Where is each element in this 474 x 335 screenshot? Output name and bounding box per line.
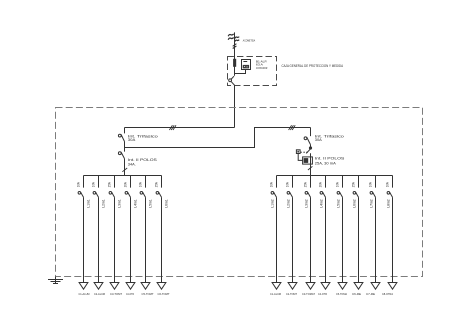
svg-text:CAJA GENERAL DE PROTECCION Y M: CAJA GENERAL DE PROTECCION Y MEDIDA xyxy=(282,64,344,68)
meter kWh xyxy=(242,60,251,70)
circuit R5: breaker 16A + feeder to load arrow xyxy=(336,176,347,290)
wire: Q1 to tee xyxy=(124,142,126,152)
svg-text:CONTADOR: CONTADOR xyxy=(256,66,268,70)
svg-text:16A: 16A xyxy=(369,181,373,187)
label Q2 xyxy=(128,158,158,167)
svg-text:25A: 25A xyxy=(155,181,159,187)
circuit R3: breaker 25A + feeder to load arrow xyxy=(304,176,315,290)
circuit L5: breaker 16A + feeder to load arrow xyxy=(139,176,153,290)
svg-text:30A: 30A xyxy=(315,138,323,142)
label Q1 xyxy=(128,134,158,142)
svg-text:C6-TOMT: C6-TOMT xyxy=(158,292,170,296)
svg-text:C1-ALUM: C1-ALUM xyxy=(79,292,91,296)
svg-text:C4-OTR: C4-OTR xyxy=(126,292,134,296)
svg-text:C4-OTR: C4-OTR xyxy=(318,292,327,296)
RCD D1 differential 25A 30mA xyxy=(296,145,312,164)
svg-text:C3-TOMT: C3-TOMT xyxy=(110,292,122,296)
circuit L6: breaker 25A + feeder to load arrow xyxy=(155,176,169,290)
svg-text:C1-ALUM: C1-ALUM xyxy=(270,292,282,296)
svg-text:C8-OTRA: C8-OTRA xyxy=(382,292,393,296)
neutral mark on left bus feed xyxy=(122,168,127,172)
svg-text:10A: 10A xyxy=(77,181,81,187)
svg-text:L7m2: L7m2 xyxy=(369,199,373,208)
svg-text:16A: 16A xyxy=(286,181,290,187)
wire: Q2 to left bus xyxy=(124,159,126,176)
svg-text:L1m1: L1m1 xyxy=(86,199,90,208)
circuit L2: breaker 16A + feeder to load arrow xyxy=(92,176,106,290)
svg-text:L8m2: L8m2 xyxy=(386,199,390,208)
wire: meter tap to main xyxy=(235,70,246,74)
labels: right circuit names xyxy=(270,292,393,296)
neutral mark on right bus feed xyxy=(308,166,313,170)
label Q3 xyxy=(315,134,344,142)
svg-text:C6-RE: C6-RE xyxy=(352,292,361,296)
svg-text:25A: 25A xyxy=(108,181,112,187)
svg-text:L3m2: L3m2 xyxy=(304,199,308,208)
svg-text:C5-TOMT: C5-TOMT xyxy=(142,292,154,296)
svg-text:34A.: 34A. xyxy=(128,163,136,167)
switch Q1 Int. Trifasico 30A xyxy=(118,134,124,141)
svg-text:30A: 30A xyxy=(128,138,137,142)
svg-text:ACOMETIDA: ACOMETIDA xyxy=(243,39,256,43)
svg-text:C3-TOMAT: C3-TOMAT xyxy=(302,292,315,296)
svg-text:L4m1: L4m1 xyxy=(133,199,137,208)
enclosure dwelling boundary dashed box xyxy=(56,108,423,277)
labels: left circuit names xyxy=(79,292,170,296)
svg-text:C2-TOMT: C2-TOMT xyxy=(286,292,297,296)
svg-text:C2-ALUM: C2-ALUM xyxy=(94,292,106,296)
phase marks (2) on service wire xyxy=(233,44,237,49)
svg-text:L3m1: L3m1 xyxy=(117,199,121,208)
switch Q3 Int. Trifasico 30A (right) xyxy=(304,137,310,145)
switch Q0 (CGP disconnect) xyxy=(229,76,235,85)
circuit L1: breaker 10A + feeder to load arrow xyxy=(77,176,91,290)
svg-text:L5m2: L5m2 xyxy=(336,199,340,208)
svg-text:Int. II POLOS: Int. II POLOS xyxy=(128,158,158,162)
phase marks (3) on left feeder xyxy=(169,125,176,130)
wire: service drop into CGP xyxy=(234,32,236,75)
svg-text:L2m1: L2m1 xyxy=(101,199,105,208)
wire: tee to right branch (Z run) xyxy=(125,128,311,148)
wire: junction to left branch xyxy=(125,127,235,129)
svg-text:20A: 20A xyxy=(319,181,323,187)
wire: right feeder down xyxy=(310,128,312,137)
switch Q2 125V II POLOS 34A xyxy=(118,152,124,159)
circuit R4: breaker 20A + feeder to load arrow xyxy=(319,176,330,290)
wire: RCD to right bus xyxy=(310,153,312,175)
svg-text:L2m2: L2m2 xyxy=(286,199,290,208)
svg-text:16A: 16A xyxy=(139,181,143,187)
circuit R8: breaker 10A + feeder to load arrow xyxy=(386,176,397,290)
label D1 xyxy=(315,156,346,165)
bus: left distribution bus xyxy=(84,175,162,177)
svg-text:16A: 16A xyxy=(336,181,340,187)
svg-text:10A: 10A xyxy=(386,181,390,187)
phase marks (3) on right feeder xyxy=(289,125,296,130)
svg-text:16A: 16A xyxy=(92,181,96,187)
circuit R7: breaker 16A + feeder to load arrow xyxy=(369,176,380,290)
svg-text:L1m2: L1m2 xyxy=(270,199,274,208)
wire: CGP to junction xyxy=(234,85,236,128)
node ACOMETIDA: supply network symbol xyxy=(228,34,239,42)
ground (earth electrode) xyxy=(48,277,63,285)
svg-text:C5-TOMA: C5-TOMA xyxy=(336,292,347,296)
bus: right distribution bus xyxy=(277,175,393,177)
circuit L3: breaker 25A + feeder to load arrow xyxy=(108,176,122,290)
circuit L4: breaker 20A + feeder to load arrow xyxy=(124,176,138,290)
svg-text:20A: 20A xyxy=(124,181,128,187)
circuit R6: breaker 25A + feeder to load arrow xyxy=(352,176,363,290)
svg-text:C7-RE: C7-RE xyxy=(366,292,375,296)
svg-text:25A, 30 mA: 25A, 30 mA xyxy=(315,162,337,166)
fuse F1 xyxy=(233,59,236,67)
svg-text:25A: 25A xyxy=(352,181,356,187)
svg-text:L6m1: L6m1 xyxy=(164,199,168,208)
svg-text:L6m2: L6m2 xyxy=(352,199,356,208)
svg-text:L5m1: L5m1 xyxy=(148,199,152,208)
enclosure CGP (caja general de proteccion) dashed box xyxy=(228,57,277,86)
circuit R2: breaker 16A + feeder to load arrow xyxy=(286,176,297,290)
svg-text:10A: 10A xyxy=(270,181,274,187)
svg-text:L4m2: L4m2 xyxy=(319,199,323,208)
label: CGP contents xyxy=(256,59,268,70)
svg-text:Int. II POLOS: Int. II POLOS xyxy=(315,156,346,160)
circuit R1: breaker 10A + feeder to load arrow xyxy=(270,176,281,290)
svg-text:25A: 25A xyxy=(304,181,308,187)
